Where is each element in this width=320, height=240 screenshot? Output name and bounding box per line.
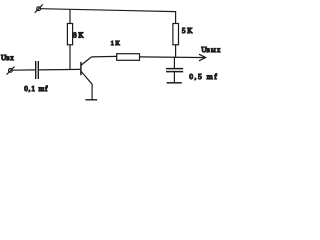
wire emitter down <box>91 84 93 100</box>
wire R2 to output node <box>140 56 199 59</box>
wire C2 to ground <box>173 72 175 83</box>
capacitor C2 0,5 mf <box>166 69 183 72</box>
svg-text:Uвых: Uвых <box>201 46 221 54</box>
svg-text:8 K: 8 K <box>73 32 84 40</box>
resistor R1 8 K <box>67 24 72 45</box>
svg-text:0,1 mf: 0,1 mf <box>24 85 48 93</box>
wire C1 to base (node with R1) <box>39 68 80 71</box>
transistor Q1 emitter stroke <box>81 72 92 85</box>
transistor Q1 collector stroke <box>81 57 91 65</box>
resistor R2 1 K <box>117 54 140 61</box>
ground (emitter) <box>85 99 97 101</box>
wire output node to C2 <box>173 58 175 69</box>
output arrow <box>198 54 205 61</box>
input terminal (top supply) <box>35 4 43 12</box>
wire collector to R2 <box>92 55 117 58</box>
wire top rail <box>41 9 176 12</box>
wire 5K bottom lead to output node <box>175 45 177 58</box>
svg-text:1 K: 1 K <box>111 40 121 47</box>
ground (C2) <box>167 82 182 84</box>
input terminal (signal) <box>7 67 15 75</box>
wire 8K top lead <box>69 9 71 23</box>
capacitor C1 0,1 mf <box>36 61 39 79</box>
wire input to C1 <box>12 69 35 71</box>
svg-text:0,5 mf: 0,5 mf <box>189 72 218 81</box>
wire 5K top lead <box>175 11 177 24</box>
resistor R3 5 K <box>173 24 179 45</box>
svg-text:5 K: 5 K <box>182 27 193 35</box>
svg-text:Uвх: Uвх <box>1 54 14 62</box>
wire 8K bottom lead to base node <box>69 45 71 70</box>
transistor Q1 base bar <box>80 62 82 75</box>
